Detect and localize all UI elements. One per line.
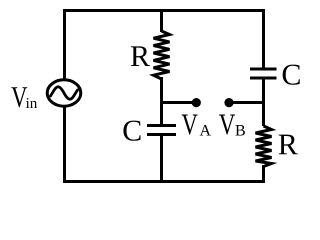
label V_A : subscript A [200, 125, 211, 136]
wire right branch top [262, 9, 265, 69]
wire middle branch between R and C [160, 77, 163, 125]
wire right branch between C and R [262, 78, 265, 126]
resistor R (right branch) [256, 126, 272, 167]
label C (right capacitor) [283, 65, 300, 85]
node V_B terminal dot [224, 98, 233, 107]
label V_B : subscript B [235, 125, 244, 136]
label V_B : V [219, 115, 235, 135]
wire middle branch top [160, 9, 163, 32]
wire stub from node V_B [232, 101, 265, 104]
label V_in : subscript n [30, 101, 37, 108]
capacitor C (middle branch) top plate [147, 124, 176, 127]
bottom rail wire [63, 180, 265, 183]
label C (middle capacitor) [123, 121, 140, 141]
capacitor C (right branch) top plate [250, 68, 277, 71]
resistor R (middle branch) [154, 31, 170, 79]
capacitor C (middle branch) bottom plate [147, 133, 176, 136]
wire right branch bottom [262, 165, 265, 183]
wire stub to node V_A [162, 101, 194, 104]
node V_A terminal dot [192, 98, 201, 107]
AC source V_in circle [47, 80, 81, 106]
label V_in : subscript i [26, 98, 30, 108]
wire left branch upper [63, 9, 66, 80]
wire left branch lower [63, 106, 66, 183]
capacitor C (right branch) bottom plate [250, 77, 277, 80]
AC source sine wave [51, 87, 78, 99]
wire middle branch bottom [160, 135, 163, 184]
label V_in : V [11, 87, 27, 107]
label R (middle resistor) [131, 46, 150, 66]
label V_A : V [182, 115, 198, 135]
label R (right resistor) [279, 135, 298, 155]
top rail wire [63, 9, 265, 12]
